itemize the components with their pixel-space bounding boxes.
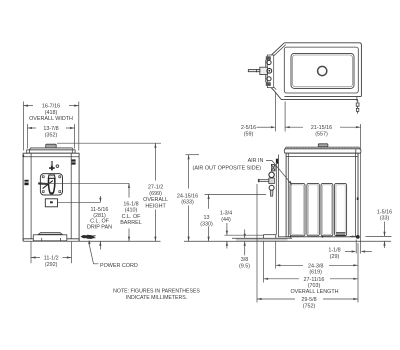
side base gray strip: [236, 238, 288, 240]
svg-text:POWER CORD: POWER CORD: [100, 263, 138, 269]
top view inner taper line: [268, 45, 286, 90]
side faucet assembly: valve top block: [271, 164, 275, 171]
FRONT VIEW: [23, 144, 96, 241]
mix cross indicator: [49, 166, 55, 171]
width ext line right 13-7/8: [74, 124, 76, 149]
front lid cap: [46, 144, 57, 148]
svg-text:OVERALL WIDTH: OVERALL WIDTH: [29, 116, 73, 122]
side front panel line: [277, 155, 279, 237]
vent slat 1: [290, 183, 305, 235]
svg-text:(752): (752): [303, 303, 316, 309]
svg-text:(633): (633): [181, 200, 194, 206]
vent slat 4 grille: [336, 232, 345, 235]
faucet handle arm: [38, 182, 48, 185]
dim 1-5/16 ext line: [366, 235, 392, 237]
svg-text:3/8: 3/8: [241, 257, 249, 263]
svg-text:INDICATE MILLIMETERS.: INDICATE MILLIMETERS.: [126, 295, 187, 301]
svg-text:BARREL: BARREL: [120, 220, 142, 226]
front panel right edge: [70, 153, 72, 239]
front lid right post: [71, 150, 73, 153]
dim 11-1/2 line: [31, 257, 40, 259]
dim 21-15/16 ext right: [360, 124, 362, 254]
overall height ext line: [57, 142, 161, 144]
svg-text:11-1/2: 11-1/2: [44, 256, 59, 262]
front lid dome: [29, 148, 73, 150]
side lid dome: [285, 147, 360, 150]
dim 24-3/8 line: [276, 264, 303, 266]
rear caster: [356, 235, 360, 239]
svg-text:AIR IN: AIR IN: [248, 158, 264, 164]
svg-text:(292): (292): [45, 262, 58, 268]
dim 21-15/16 line: [285, 126, 303, 128]
side base line: [232, 237, 292, 239]
top view inner rounded rect: [291, 53, 354, 88]
front lid band: [27, 150, 75, 153]
svg-text:HEIGHT: HEIGHT: [145, 203, 166, 209]
svg-text:27-1/2: 27-1/2: [148, 185, 163, 191]
svg-text:16-7/16: 16-7/16: [42, 104, 60, 110]
side lid dome ribs: [288, 147, 357, 148]
drip pan foot left: [41, 238, 43, 241]
plate screw TR: [58, 175, 61, 178]
left side switch: [24, 180, 28, 182]
dim 1-3/4 arrows: [226, 223, 228, 235]
svg-text:13: 13: [204, 215, 210, 221]
svg-text:(418): (418): [45, 110, 58, 116]
bottom ext line A 29-5/8: [256, 184, 258, 303]
top view outer lid outline with left taper: [266, 43, 362, 97]
front panel left edge: [30, 153, 32, 239]
dim 1-3/4 ext line: [225, 234, 264, 236]
dim 16-1/8 line: [128, 183, 130, 197]
dim 3/8 arrows: [244, 230, 246, 239]
svg-text:(9.5): (9.5): [239, 264, 250, 270]
side body front inner edge: [287, 153, 289, 237]
right top switch: [72, 159, 76, 164]
top view center ring: [318, 66, 327, 75]
svg-text:(330): (330): [200, 221, 213, 227]
TOP VIEW: [248, 43, 361, 114]
side lid cap: [318, 144, 328, 147]
svg-text:(619): (619): [309, 270, 322, 276]
side front panel bottom: [278, 236, 286, 238]
floor line front: [23, 240, 160, 242]
drip pan foot right: [59, 238, 61, 241]
handle pin: [51, 162, 53, 167]
TOP VIEW DIMENSIONS: [241, 93, 361, 254]
caster leader arrow: [350, 235, 353, 237]
svg-text:(699): (699): [149, 191, 162, 197]
air in leader: [266, 161, 291, 184]
svg-text:OVERALL: OVERALL: [143, 197, 168, 203]
side body rear inner edge: [355, 153, 357, 237]
drip pan rim: [39, 233, 63, 235]
svg-text:24-3/8: 24-3/8: [308, 263, 323, 269]
side drip pan box: [264, 235, 276, 240]
body corner mark: [23, 155, 25, 157]
top assembly small block top: [266, 56, 271, 60]
svg-text:21-15/16: 21-15/16: [311, 125, 332, 131]
top assembly small block bottom: [266, 82, 271, 86]
svg-text:13-7/8: 13-7/8: [43, 126, 58, 132]
dim 27-1/2 line: [154, 143, 156, 180]
dim 27-11/16 line: [264, 278, 300, 280]
badge plate: [45, 199, 57, 207]
side body seam: [286, 156, 358, 158]
svg-text:16-1/8: 16-1/8: [123, 201, 138, 207]
svg-text:C.L. OF: C.L. OF: [122, 214, 142, 220]
side faucet lower ring: [269, 185, 274, 190]
top assembly circle 3: [267, 77, 271, 81]
side front panel inner line: [275, 164, 277, 235]
bottom ext line right: [357, 243, 359, 303]
faucet handle tulip body: [48, 179, 54, 194]
svg-text:1-1/8: 1-1/8: [328, 248, 340, 254]
side lid right post: [355, 149, 357, 153]
svg-text:(59): (59): [244, 132, 254, 138]
overall width ext line right: [78, 102, 80, 151]
top view faucet assembly plate: [267, 55, 273, 88]
svg-text:NOTE: FIGURES IN PARENTHESES: NOTE: FIGURES IN PARENTHESES: [113, 289, 200, 295]
svg-text:(33): (33): [380, 216, 390, 222]
SIDE VIEW: [232, 144, 361, 241]
small lamp circle: [56, 165, 59, 168]
dim 2-5/16 leader: [257, 126, 272, 128]
svg-text:(AIR OUT OPPOSITE SIDE): (AIR OUT OPPOSITE SIDE): [193, 165, 262, 171]
faucet plate: [40, 174, 62, 195]
drip pan base: [33, 235, 67, 241]
drip pan centerline: [58, 201, 101, 203]
svg-text:1-3/4: 1-3/4: [220, 211, 232, 217]
overall width ext line left: [22, 102, 24, 151]
dim 1-5/16 arrows: [384, 222, 386, 237]
dim 13 ext top: [205, 193, 267, 195]
front body seam: [23, 156, 79, 158]
dim 1-1/8 arrows: [345, 251, 352, 253]
SIDE VIEW DIMENSIONS: [177, 155, 392, 310]
side lid band: [284, 149, 361, 153]
top handle rod tick: [256, 69, 258, 72]
width ext line left 13-7/8: [27, 124, 29, 149]
dim 13-7/8 line: [28, 127, 37, 129]
top assembly circle 1: [267, 60, 271, 64]
side body: [286, 153, 358, 237]
top view base outline: [275, 91, 358, 99]
svg-text:(352): (352): [45, 132, 58, 138]
side faucet outlet: [270, 190, 273, 196]
side handle rod end: [258, 179, 260, 182]
dim 11-1/2 ext right: [70, 242, 72, 263]
top view second rect: [284, 47, 358, 93]
plate screw BL: [42, 190, 45, 193]
top assembly valve body: [260, 67, 268, 74]
dim 1-1/8 caster ext: [355, 240, 357, 254]
front lid left post: [29, 150, 31, 153]
svg-text:2-5/16: 2-5/16: [241, 125, 256, 131]
front left foot: [22, 239, 24, 241]
top assembly circle 2: [267, 68, 272, 73]
dim 16-7/16 line: [23, 105, 33, 107]
side faucet mid block: [269, 178, 275, 184]
dim 11-5/16 arrows: [99, 196, 101, 202]
svg-text:(44): (44): [221, 217, 231, 223]
svg-text:29-5/8: 29-5/8: [301, 297, 316, 303]
faucet handle top block: [48, 175, 55, 178]
dim 11-1/2 ext left: [30, 242, 32, 263]
faucet handle bottom: [50, 192, 54, 194]
floor line side: [184, 240, 391, 242]
svg-text:24-15/16: 24-15/16: [177, 193, 198, 199]
vent slat 3: [321, 183, 333, 235]
top view inner liner lip: [293, 55, 353, 87]
dim 2-5/16 ext right: [284, 102, 286, 132]
front rear body: [23, 153, 79, 239]
dim 13 line: [208, 194, 210, 208]
barrel centerline: [41, 182, 130, 184]
top view cord stub: [356, 96, 359, 103]
top view cord plug: [356, 103, 359, 114]
power cord leader: [89, 244, 99, 264]
side edge screw: [357, 197, 359, 200]
svg-text:1-5/16: 1-5/16: [377, 209, 392, 215]
side switch: [276, 159, 278, 164]
vent slat 2: [307, 183, 319, 235]
side handle rod: [259, 180, 269, 182]
front lid dome ribs: [31, 148, 71, 150]
top handle rod: [248, 70, 259, 72]
FRONT VIEW DIMENSIONS: [23, 102, 200, 302]
bottom ext line C 24-3/8: [275, 242, 277, 269]
plate screw BR: [58, 190, 61, 193]
svg-text:(557): (557): [315, 132, 328, 138]
power cord plug: [81, 235, 95, 239]
svg-text:OVERALL LENGTH: OVERALL LENGTH: [290, 289, 338, 295]
plate screw TL: [42, 175, 45, 178]
bottom ext line B 27-11/16: [263, 242, 265, 283]
vent slat 4: [335, 183, 347, 235]
faucet lever: [43, 181, 53, 189]
dim 2-5/16 ext left: [275, 93, 277, 132]
bottom screws: [290, 236, 292, 238]
badge inner mark: [50, 201, 53, 203]
svg-text:27-11/16: 27-11/16: [304, 277, 325, 283]
dim 24-15/16 line: [188, 155, 190, 189]
front right foot: [78, 239, 80, 241]
svg-text:(29): (29): [330, 254, 340, 260]
svg-text:(410): (410): [125, 208, 138, 214]
dim 29-5/8 line: [257, 298, 295, 300]
svg-text:DRIP PAN: DRIP PAN: [87, 224, 112, 230]
dim 24-15/16 ext top: [186, 154, 200, 156]
side faucet ring: [269, 172, 274, 177]
